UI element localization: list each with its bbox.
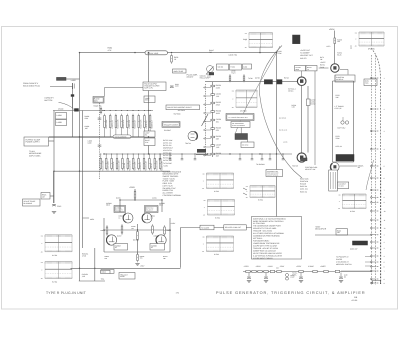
wire [333, 80, 354, 82]
wire junction [148, 136, 149, 137]
box tunnel diode [226, 114, 254, 121]
svg-text:+350V: +350V [329, 28, 335, 31]
terminal pin 10 [371, 210, 373, 212]
wire junction [134, 52, 135, 53]
resistor R4537 [121, 224, 123, 226]
svg-text:PULSE GENERATOR, TRIGGERING: PULSE GENERATOR, TRIGGERING CIRCUIT, & A… [216, 291, 366, 295]
waveform delay graticule [343, 193, 367, 195]
svg-text:+350V: +350V [256, 265, 262, 268]
box below pickoff [241, 142, 254, 148]
svg-text:R4103 10K: R4103 10K [117, 119, 120, 129]
decoupling resistor 2 [252, 270, 256, 272]
box R4107 [144, 138, 155, 146]
delay line network hatch [330, 172, 332, 189]
delay line network box [329, 170, 338, 191]
terminal pin 9 [371, 202, 373, 204]
svg-text:R4733 47K: R4733 47K [163, 144, 172, 147]
cable bundle dashed [380, 168, 382, 284]
wire junction [134, 199, 135, 200]
dark connector tab [301, 158, 308, 161]
svg-text:CONTROLS NORMAL: CONTROLS NORMAL [163, 194, 182, 197]
capacitor drop 3 [181, 154, 183, 159]
capacitor drop 6 [251, 154, 253, 159]
box connect [338, 182, 349, 189]
wire junction [207, 153, 208, 154]
switch contact 7 [204, 138, 205, 139]
wire junction [276, 153, 277, 154]
wire [120, 199, 162, 201]
resistor C4131 [211, 94, 215, 96]
wire [53, 171, 55, 203]
wire [53, 110, 105, 112]
resistor R4121 [100, 157, 102, 159]
box aux [364, 79, 377, 86]
wire power rail [243, 271, 371, 273]
box collector current [166, 105, 200, 110]
svg-text:782: 782 [209, 51, 212, 54]
tube V4734 [188, 131, 197, 140]
interconnect dashed line a [370, 55, 372, 285]
svg-text:SCOPE INPUT CABLES: SCOPE INPUT CABLES [253, 257, 274, 260]
svg-text:BUTTON: BUTTON [45, 99, 53, 102]
box amplitude [173, 69, 187, 73]
wire trigger feed [105, 87, 144, 89]
resistor R4101 [104, 114, 106, 116]
wire junction [169, 229, 170, 230]
dark knob 2 [353, 241, 368, 245]
box phantastron [335, 75, 355, 82]
terminal pin 16 [371, 255, 373, 257]
svg-text:C4102 ,01: C4102 ,01 [111, 120, 114, 128]
wire [180, 228, 182, 268]
svg-text:2,2M: 2,2M [216, 86, 220, 89]
wire [301, 71, 303, 77]
svg-text:C452 ,001: C452 ,001 [300, 188, 308, 191]
svg-text:C4732 ,001: C4732 ,001 [163, 141, 172, 144]
capacitor drop 4 [194, 154, 196, 159]
terminal pin 15 [371, 247, 373, 249]
svg-text:6.3VAC: 6.3VAC [308, 265, 315, 268]
resistor R4103 [115, 114, 117, 116]
wire capacity arc [59, 102, 75, 110]
svg-text:R4126 470K: R4126 470K [128, 160, 131, 171]
wire leader [365, 265, 371, 267]
capacitor C4740 block [264, 80, 272, 84]
wire junction [79, 136, 80, 137]
wire junction [259, 153, 260, 154]
terminal pin 17 [371, 261, 373, 263]
switch contact 5 [204, 121, 205, 122]
switch contact 2 [204, 95, 205, 96]
wire junction [148, 153, 149, 154]
resistor R4132 [211, 102, 215, 104]
wire central vertical [148, 91, 150, 155]
resistor C4102 [109, 114, 111, 116]
box R4546b [101, 270, 110, 273]
resistor R4136 [211, 136, 215, 138]
svg-text:R4104 47K: R4104 47K [122, 119, 125, 129]
svg-text:BLANKING: BLANKING [24, 202, 33, 205]
waveform int trig graticule [208, 199, 235, 201]
bypass capacitor 4 [340, 273, 342, 277]
svg-text:R4124 2,2M: R4124 2,2M [118, 160, 121, 170]
box pickoff follower [231, 122, 250, 128]
decoupling resistor 9 [324, 270, 328, 272]
wire [72, 86, 74, 137]
wire [53, 111, 55, 204]
svg-text:+250V: +250V [129, 186, 136, 189]
svg-text:LEVEL CENTERING: LEVEL CENTERING [232, 125, 245, 127]
resistor R4106 [132, 114, 134, 116]
svg-text:R4123 47K: R4123 47K [112, 161, 115, 171]
resistor R4740 [229, 74, 231, 76]
wire [72, 97, 74, 109]
resistor C4128 [138, 157, 140, 159]
wire junction [161, 199, 162, 200]
wire [103, 218, 105, 252]
terminal block A-B-C [57, 77, 67, 80]
tube V4528A [123, 213, 133, 223]
waveform ext trig graticule [207, 172, 234, 174]
box see parts list [266, 170, 283, 177]
resistor R4130 [211, 85, 215, 87]
switch contact 3 [204, 104, 205, 105]
svg-text:C4122 ,005: C4122 ,005 [107, 161, 110, 170]
svg-text:R4735 3.3K: R4735 3.3K [163, 154, 173, 157]
component on line C4742 [306, 99, 310, 106]
junction blob [74, 108, 79, 111]
svg-text:L4400: L4400 [71, 79, 76, 82]
svg-text:,001: ,001 [216, 95, 219, 98]
wire [161, 200, 163, 212]
switch arm [202, 114, 209, 126]
waveform cathode graticule [45, 261, 72, 263]
svg-text:C4105 220: C4105 220 [128, 120, 131, 129]
inductor L440A [56, 113, 67, 120]
svg-text:SW 5847: SW 5847 [164, 129, 171, 132]
terminal pin 18 [371, 266, 373, 268]
svg-text:R4107 22K: R4107 22K [139, 119, 142, 129]
svg-text:C4030 78A: C4030 78A [229, 54, 238, 57]
waveform gate graticule [359, 31, 384, 33]
terminal pin 20 [371, 278, 373, 280]
wire [339, 165, 357, 167]
svg-text:T4734 PNP: T4734 PNP [163, 162, 173, 165]
svg-text:+GATE: +GATE [320, 265, 326, 268]
capacitor drop 8 [269, 154, 271, 159]
wire [333, 161, 354, 163]
wire leader [365, 256, 371, 258]
relay coil K401 [207, 66, 214, 73]
terminal pin 4 [371, 148, 373, 150]
fuse F4015 [286, 274, 289, 277]
resistor R545 [41, 193, 50, 200]
box L4741A [295, 66, 306, 71]
box pulse generator [93, 97, 104, 104]
terminal pin 2 [371, 108, 373, 110]
wire [276, 53, 278, 228]
wire [315, 234, 371, 236]
terminal pin 14 [371, 241, 373, 243]
capacitor drop 2 [169, 154, 171, 159]
wire [319, 67, 329, 69]
wire [94, 248, 96, 281]
svg-text:INDUCTANCE PLUG: INDUCTANCE PLUG [23, 84, 41, 87]
bypass capacitor 1 [248, 273, 250, 277]
svg-text:TO SWEEP: TO SWEEP [300, 52, 310, 55]
ground [135, 263, 139, 265]
wire junction [53, 171, 54, 172]
box trigger pickoff dark [235, 134, 248, 140]
wire junction [276, 52, 277, 53]
svg-text:SW 470: SW 470 [300, 57, 306, 60]
wire junction [94, 268, 95, 269]
wire bus [205, 81, 297, 83]
svg-text:DELAY LINE: DELAY LINE [148, 52, 159, 55]
resistor C4125 [121, 157, 123, 159]
wire junction b [79, 268, 80, 269]
wire [353, 81, 355, 162]
box inverted polarity [145, 206, 159, 213]
svg-text:+225V: +225V [296, 265, 302, 268]
svg-text:C4125 68: C4125 68 [123, 163, 126, 171]
svg-text:SUBSTITUTIONS: SUBSTITUTIONS [267, 174, 278, 176]
switch contact 1 [204, 87, 205, 88]
wire switch wafer dashed [205, 84, 207, 156]
svg-text:L440A: L440A [57, 114, 63, 117]
svg-text:TYPE R PLUG-IN UNIT: TYPE R PLUG-IN UNIT [46, 291, 86, 295]
svg-text:R450 500K: R450 500K [300, 178, 309, 181]
wire [334, 75, 336, 81]
resistor R4546 [137, 253, 139, 255]
wire leader [341, 270, 371, 272]
svg-text:ADJUST: ADJUST [187, 76, 195, 79]
neon B477 [341, 121, 344, 124]
svg-text:R4732 100K: R4732 100K [163, 139, 173, 142]
wire [50, 195, 54, 197]
wire junction [119, 199, 120, 200]
box sweep a [217, 64, 229, 70]
terminal pin 6 [371, 177, 373, 179]
svg-text:+GATE OUT: +GATE OUT [300, 49, 311, 52]
svg-text:R4121 100K: R4121 100K [101, 160, 104, 171]
wire coax swoosh 2 [236, 46, 281, 133]
wire [301, 86, 303, 153]
switch contact 8 [204, 146, 205, 147]
wire coax swoosh right [366, 160, 374, 190]
resistor L4108 [143, 114, 145, 116]
resistor R4132 [159, 157, 161, 159]
resistor R4741 [243, 74, 245, 76]
power supply box [24, 137, 49, 146]
decoupling resistor 6 [277, 270, 281, 272]
decoupling resistor 4 [264, 270, 268, 272]
wire [181, 227, 255, 229]
capacitor C4100 [98, 117, 102, 119]
svg-text:RANGE: RANGE [300, 183, 307, 186]
wire [137, 224, 139, 254]
capacitor C4741 block [277, 80, 282, 84]
resistor C4134 [211, 119, 215, 121]
svg-text:MICROVOLT: MICROVOLT [163, 146, 173, 149]
resistor R4536 [137, 230, 139, 232]
decoupling resistor 3 [258, 270, 262, 272]
wire coax swoosh [259, 46, 302, 179]
decoupling resistor 1 [246, 270, 250, 272]
svg-text:L4108 3,9: L4108 3,9 [145, 121, 148, 129]
wire [66, 78, 80, 80]
resistor R4123 [111, 157, 113, 159]
wire [259, 48, 261, 53]
svg-text:POSITION: POSITION [300, 180, 309, 183]
delay line pill [145, 51, 168, 55]
resistor R4133 [211, 111, 215, 113]
box R4741 [306, 66, 317, 71]
wire [104, 251, 170, 253]
wire [240, 128, 242, 134]
resistor R4126 [127, 157, 129, 159]
switch wafer dark [197, 149, 206, 153]
terminal pin 5 [371, 165, 373, 167]
resistor C4122 [105, 157, 107, 159]
resistor R4735 [334, 36, 336, 38]
switch contact 9 [204, 155, 205, 156]
resistor R4135 [211, 128, 215, 130]
wire [169, 218, 171, 252]
wire [332, 81, 334, 162]
resistor R4131 [154, 157, 156, 159]
decoupling resistor 8 [313, 270, 317, 272]
svg-text:SWP V4 PL: SWP V4 PL [144, 87, 153, 90]
box sweep b [230, 64, 242, 70]
svg-text:SW 5960: SW 5960 [174, 112, 181, 115]
tube V473 [331, 64, 339, 72]
junction blob 2 [71, 94, 74, 96]
box trigger sensitivity dark [336, 155, 354, 162]
svg-text:/4741A: /4741A [288, 90, 294, 93]
resistor R4104 [121, 114, 123, 116]
wire junction [148, 52, 149, 53]
capacitor C4100b [98, 144, 102, 146]
label no blanking pill [113, 135, 131, 139]
resistor R4124 [116, 157, 118, 159]
svg-text:4-9-56: 4-9-56 [352, 299, 359, 302]
wire [334, 31, 336, 64]
box output cf B [150, 244, 165, 251]
wire dashed [99, 103, 101, 180]
switch contact line [50, 85, 73, 87]
box delayed sync [224, 225, 247, 230]
svg-text:POWER SUPPLY: POWER SUPPLY [26, 141, 41, 144]
svg-text:R4106 1M: R4106 1M [134, 120, 137, 129]
resistor R4420 [100, 107, 102, 109]
terminal pin 3 [371, 130, 373, 132]
svg-text:MERCURY SWITCH: MERCURY SWITCH [336, 263, 352, 266]
resistor R4531 [106, 225, 108, 227]
resistor C4130 [148, 157, 150, 159]
terminal pin 12 [371, 227, 373, 229]
resistor R4528 [134, 190, 136, 192]
wire [307, 86, 309, 153]
svg-text:+125V: +125V [163, 164, 169, 167]
wire [247, 140, 249, 143]
wire top bus [80, 52, 277, 54]
arrow marks [243, 188, 247, 195]
resistor R4129 [143, 157, 145, 159]
bypass capacitor 3 [300, 273, 302, 277]
waveform pickoff graticule [236, 89, 257, 91]
switch contact 6 [204, 129, 205, 130]
svg-text:R4131 220K: R4131 220K [155, 160, 158, 171]
tube V4545A [106, 235, 116, 245]
svg-text:+100V: +100V [268, 265, 274, 268]
resistor R4532 [164, 225, 166, 227]
wire leader [365, 261, 371, 263]
svg-text:C545: C545 [57, 205, 61, 208]
svg-text:NO BLANKING: NO BLANKING [115, 136, 127, 139]
wire no-blanking bus [49, 136, 155, 138]
resistor R4109 [149, 114, 151, 116]
resistor R4107 [138, 114, 140, 116]
wire [134, 189, 136, 200]
svg-text:150: 150 [216, 120, 219, 123]
capacitor drop 7 [261, 154, 263, 159]
decoupling resistor 7 [299, 270, 303, 272]
tube V4745 [297, 153, 306, 162]
wire junction [79, 171, 80, 172]
svg-text:L440B: L440B [57, 121, 63, 124]
connector shell [373, 281, 381, 285]
capacitor drop 5 [239, 154, 241, 159]
box R480 [336, 229, 348, 235]
svg-text:+225V: +225V [244, 265, 250, 268]
terminal pin 8 [371, 197, 373, 199]
wire left bus vertical [79, 53, 81, 281]
relay box K402 [293, 35, 301, 44]
tube V4734A [297, 77, 306, 86]
box L4107 [144, 131, 155, 137]
wire [82, 111, 84, 249]
terminal pin 19 [371, 270, 373, 272]
wire [342, 117, 344, 121]
resistor C4105 [126, 114, 128, 116]
svg-text:,005: ,005 [82, 275, 85, 278]
waveform delayed trigger [250, 185, 275, 187]
box L4105 peaking [144, 96, 155, 103]
resistor R4545 box [101, 270, 114, 274]
capacitor C545 [52, 204, 56, 206]
box to scope [200, 225, 214, 230]
svg-text:AMPLITUDE: AMPLITUDE [174, 70, 185, 73]
ground [52, 211, 56, 213]
resistor C4137 [211, 145, 215, 147]
svg-text:R452 2M: R452 2M [300, 185, 307, 188]
wire [49, 140, 55, 142]
interconnect dashed line b [374, 55, 376, 285]
wire bottom loop [71, 267, 181, 269]
wire junction [103, 153, 104, 154]
box normal polarity [114, 206, 126, 213]
wire junction [171, 52, 172, 53]
box sweep c [243, 64, 252, 69]
waveform sweep graticule [249, 32, 273, 34]
wire [340, 69, 348, 71]
terminal pin 11 [371, 219, 373, 221]
bypass capacitor 2 [265, 273, 267, 277]
decoupling resistor 5 [270, 270, 274, 272]
svg-text:R4101 82K: R4101 82K [105, 119, 108, 129]
svg-text:C4128 ,01: C4128 ,01 [139, 162, 142, 170]
